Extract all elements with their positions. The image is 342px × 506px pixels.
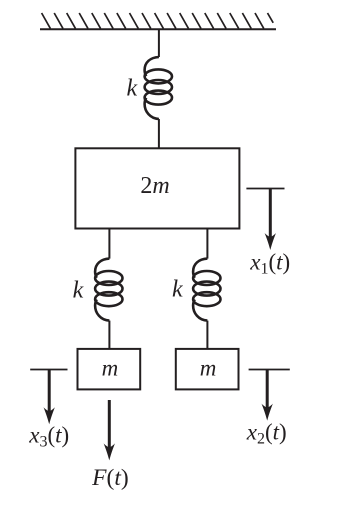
svg-text:x1(t): x1(t)	[249, 250, 290, 278]
svg-text:2m: 2m	[140, 173, 169, 199]
svg-text:m: m	[200, 356, 217, 381]
svg-text:x2(t): x2(t)	[246, 419, 287, 447]
svg-text:k: k	[73, 278, 84, 304]
svg-text:F(t): F(t)	[91, 465, 129, 491]
svg-text:m: m	[102, 356, 119, 381]
svg-text:x3(t): x3(t)	[28, 423, 69, 451]
svg-text:k: k	[126, 76, 137, 102]
svg-text:k: k	[172, 277, 183, 303]
